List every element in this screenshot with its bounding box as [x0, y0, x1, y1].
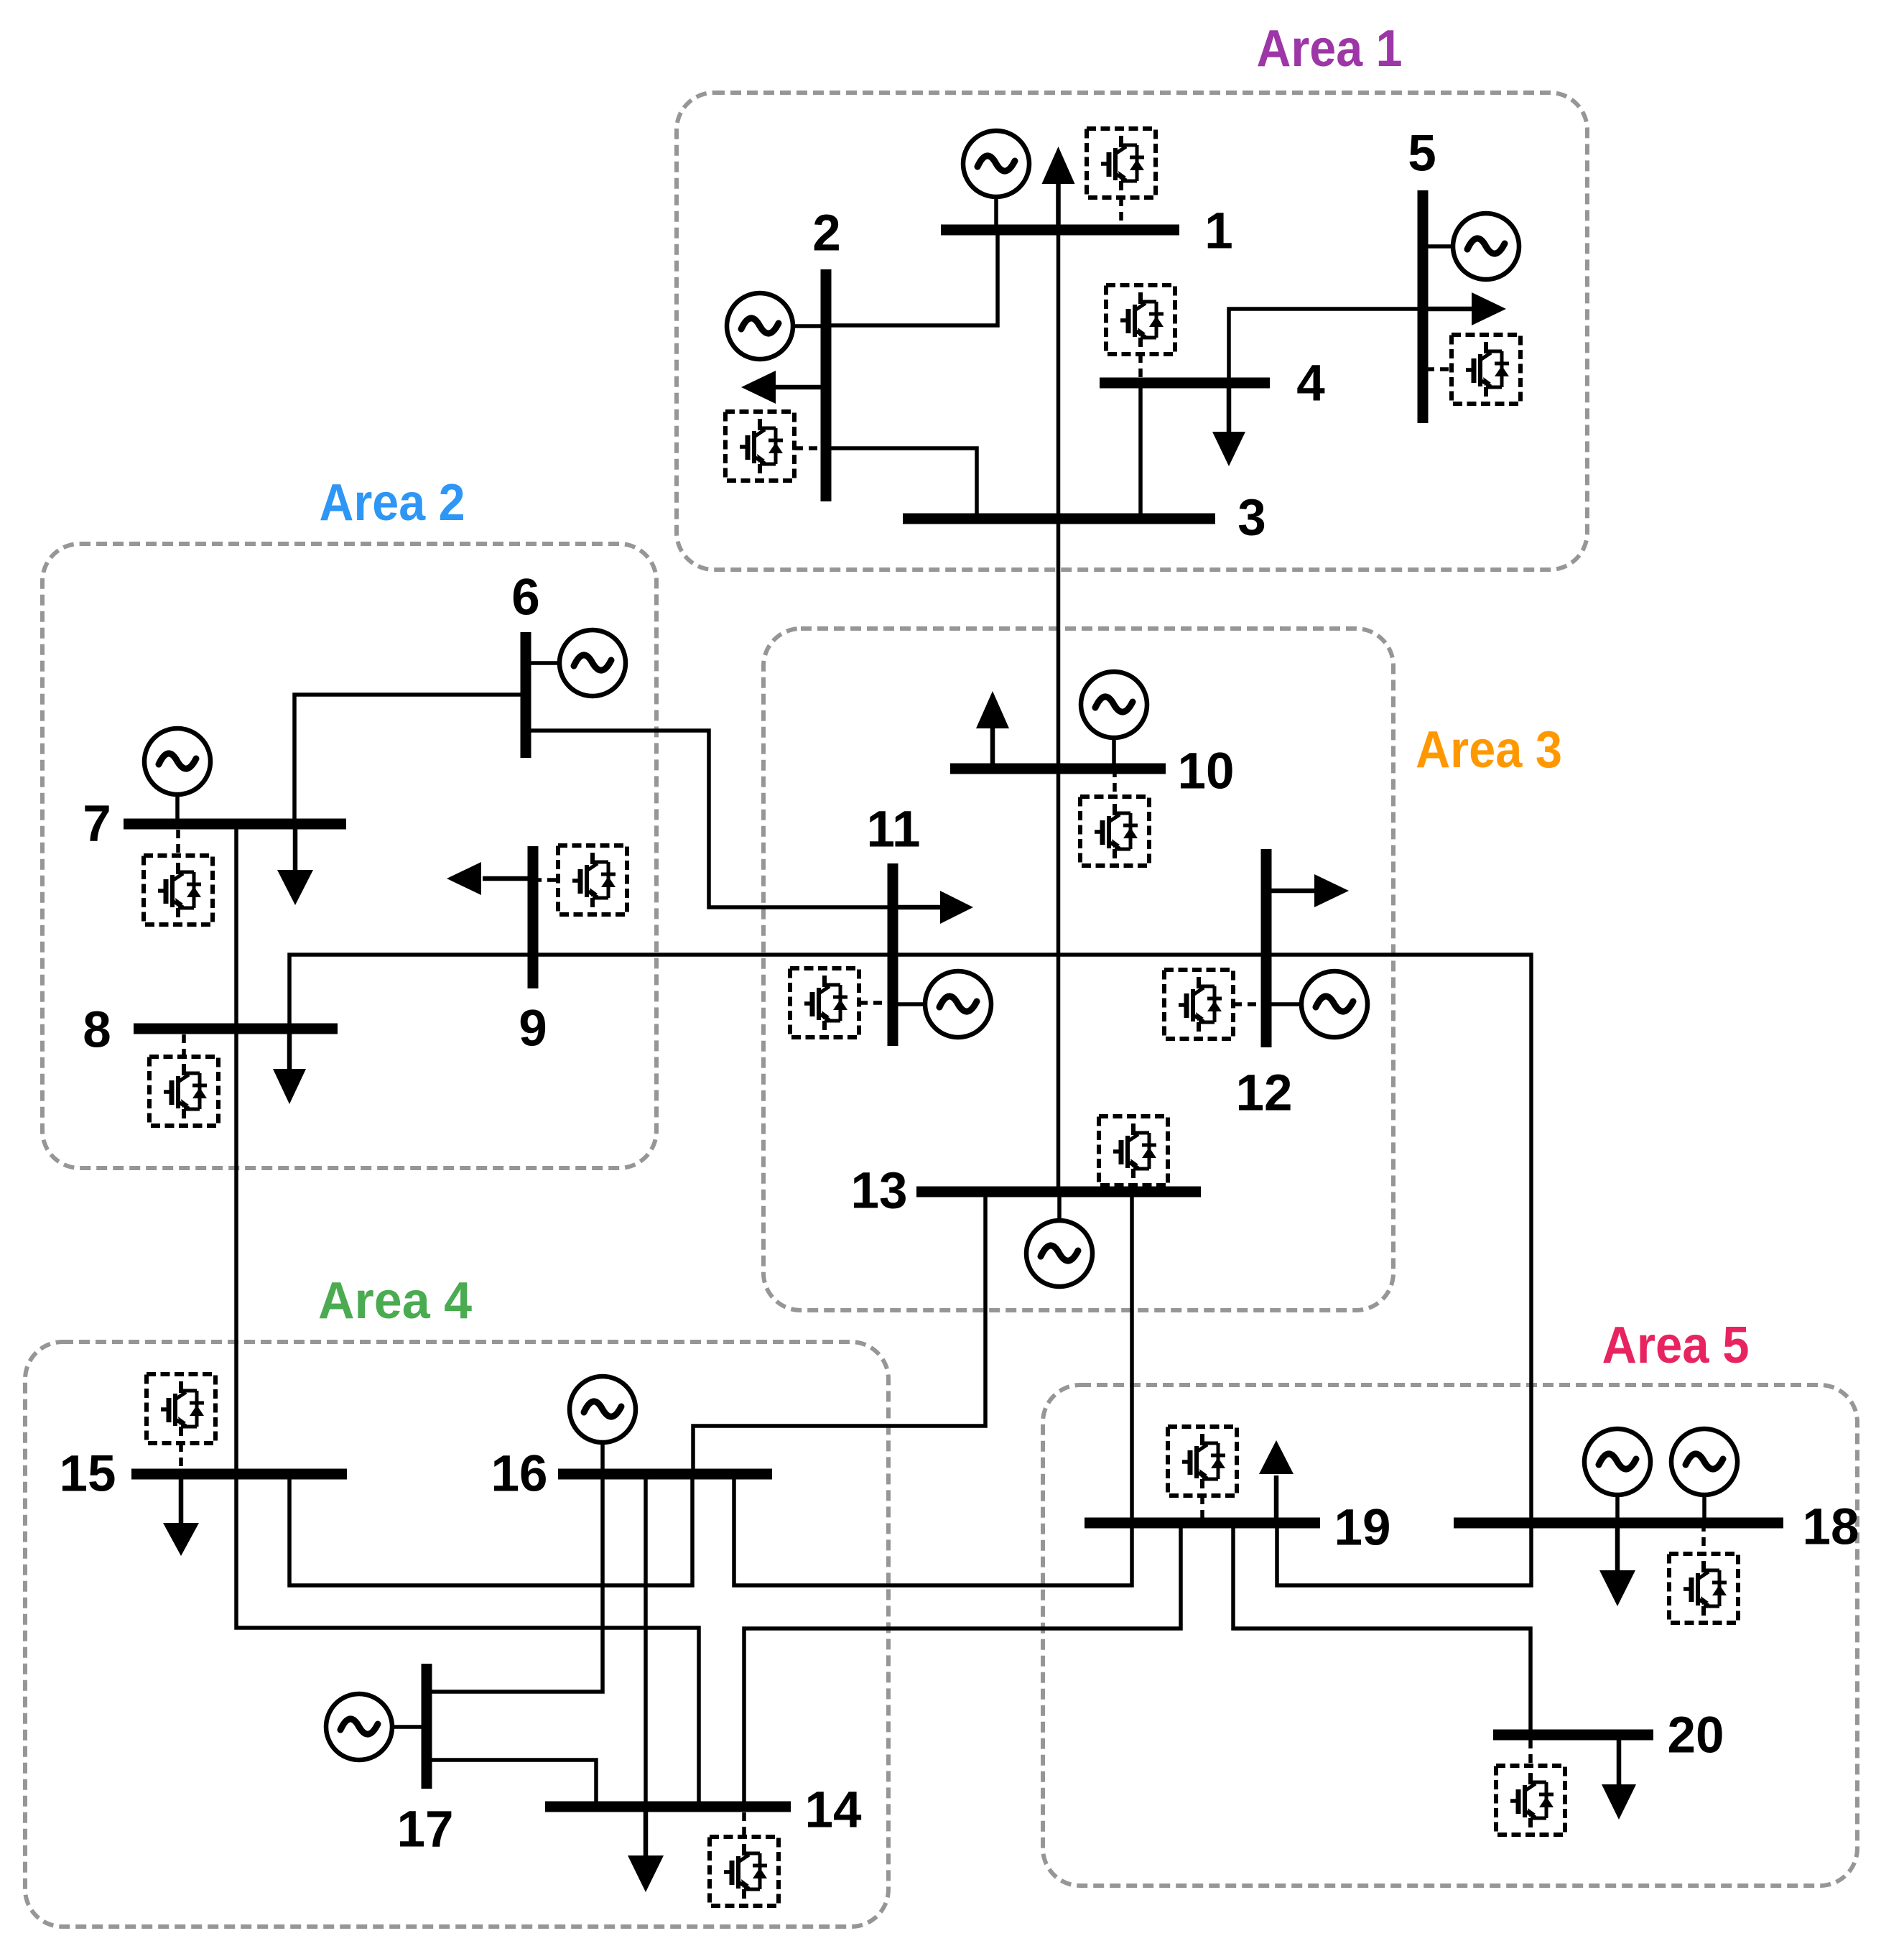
- converter C9 (bus 9): [533, 845, 627, 914]
- wire 6-11: [526, 731, 893, 907]
- svg-text:13: 13: [851, 1163, 908, 1220]
- generator G13 (bus 13): [1026, 1192, 1092, 1287]
- load L9 (bus 9, left): [447, 862, 533, 895]
- generator G11 (bus 11): [893, 971, 991, 1037]
- svg-text:16: 16: [491, 1446, 548, 1503]
- svg-text:2: 2: [812, 205, 841, 262]
- svg-text:Area 3: Area 3: [1416, 721, 1562, 779]
- svg-text:9: 9: [519, 1001, 547, 1057]
- generator G18b (bus 18): [1671, 1429, 1737, 1523]
- load L1 (bus 1, up): [1042, 147, 1075, 230]
- generator G18a (bus 18): [1584, 1429, 1650, 1523]
- bus 11: [888, 863, 898, 1046]
- wire 8-9-12-18-19 long link: [289, 955, 1531, 1585]
- generator G7 (bus 7): [144, 728, 210, 824]
- svg-text:15: 15: [60, 1446, 116, 1503]
- load L2 (bus 2, left): [741, 371, 826, 404]
- svg-text:1: 1: [1204, 203, 1233, 260]
- generator G16 (bus 16): [570, 1376, 636, 1474]
- area 4 box: [25, 1342, 888, 1927]
- svg-text:14: 14: [805, 1782, 862, 1839]
- area 2 box: [42, 544, 656, 1168]
- bus 14: [545, 1802, 791, 1812]
- wire 19-20: [1233, 1523, 1531, 1735]
- wire 6-7: [294, 695, 526, 824]
- generator G10 (bus 10): [1081, 672, 1147, 769]
- bus 2: [821, 269, 832, 501]
- area 5 box: [1043, 1385, 1857, 1886]
- wire 13-16: [693, 1192, 985, 1474]
- bus 8: [134, 1024, 338, 1034]
- svg-text:Area 4: Area 4: [318, 1272, 472, 1330]
- generator G1 (bus 1): [963, 131, 1029, 230]
- bus 15: [131, 1469, 347, 1480]
- generator G5 (bus 5): [1423, 213, 1519, 279]
- svg-text:10: 10: [1178, 743, 1235, 800]
- converter C12 (bus 12): [1164, 970, 1262, 1039]
- converter C18 (bus 18): [1669, 1523, 1738, 1623]
- bus 3: [903, 514, 1215, 524]
- svg-text:5: 5: [1408, 126, 1436, 182]
- area 3 box: [763, 629, 1393, 1310]
- wire 13-19-16: [734, 1192, 1132, 1585]
- bus 9: [528, 846, 539, 988]
- svg-text:11: 11: [866, 802, 920, 858]
- wire 4-3: [1138, 383, 1143, 519]
- bus 10: [950, 764, 1166, 774]
- bus 12: [1261, 849, 1272, 1047]
- bus 18: [1454, 1518, 1783, 1529]
- wire 2-1: [826, 230, 998, 325]
- generator G17 (bus 17): [326, 1694, 427, 1760]
- wire 7-8: [234, 824, 238, 1029]
- converter C7 (bus 7): [144, 830, 213, 925]
- load L12 (bus 12, right): [1266, 874, 1349, 907]
- wire 8-14: [236, 1029, 699, 1807]
- svg-text:17: 17: [397, 1802, 454, 1858]
- wire 14-19: [744, 1523, 1181, 1807]
- load L18 (bus 18, down): [1599, 1523, 1635, 1606]
- converter C10 (bus 10): [1080, 769, 1149, 866]
- wire 16-17: [427, 1474, 603, 1692]
- load L15 (bus 15, down): [163, 1474, 199, 1556]
- generator G6 (bus 6): [526, 630, 626, 696]
- bus 13: [916, 1187, 1201, 1197]
- svg-text:7: 7: [83, 796, 111, 853]
- svg-text:18: 18: [1803, 1499, 1859, 1556]
- load L11 (bus 11, right): [893, 891, 973, 924]
- converter C15 (bus 15): [147, 1374, 215, 1474]
- converter C19 (bus 19): [1168, 1427, 1237, 1523]
- generator G12 (bus 12): [1266, 971, 1367, 1037]
- svg-text:Area 1: Area 1: [1257, 20, 1403, 78]
- load L5 (bus 5, right): [1423, 292, 1506, 325]
- bus 19: [1085, 1518, 1320, 1529]
- load L8 (bus 8, down): [273, 1034, 306, 1104]
- load L20 (bus 20, down): [1602, 1735, 1636, 1820]
- svg-text:Area 5: Area 5: [1602, 1317, 1750, 1374]
- converter C2 (bus 2): [725, 412, 826, 481]
- svg-text:4: 4: [1296, 356, 1325, 412]
- wire 17-14: [427, 1760, 596, 1807]
- wire 2-3: [826, 448, 977, 519]
- bus 4: [1100, 378, 1270, 389]
- svg-text:3: 3: [1237, 490, 1266, 547]
- load L7 (bus 7, down): [277, 824, 313, 905]
- generator G2 (bus 2): [727, 293, 826, 359]
- svg-text:19: 19: [1334, 1500, 1391, 1557]
- converter C1 (bus 1): [1087, 129, 1156, 224]
- wire 1-3-10-13 trunk: [1057, 230, 1061, 1192]
- wire 16-14: [644, 1474, 648, 1807]
- wire 4-5: [1229, 309, 1423, 383]
- converter C5 (bus 5): [1426, 335, 1520, 404]
- svg-text:12: 12: [1236, 1065, 1293, 1122]
- load L19 (bus 19, up): [1259, 1440, 1294, 1523]
- bus 7: [124, 819, 346, 830]
- bus 5: [1418, 190, 1429, 423]
- svg-text:8: 8: [83, 1002, 111, 1059]
- load L4 (bus 4, down): [1212, 383, 1245, 466]
- wire 15-16: [289, 1474, 692, 1585]
- area 1 box: [677, 93, 1587, 570]
- load L14 (bus 14, down): [628, 1807, 664, 1892]
- svg-text:Area 2: Area 2: [320, 474, 465, 532]
- bus 20: [1493, 1730, 1653, 1741]
- converter C8 (bus 8): [149, 1034, 218, 1126]
- svg-text:6: 6: [511, 570, 540, 626]
- converter C4 (bus 4): [1106, 285, 1175, 379]
- svg-text:20: 20: [1668, 1708, 1724, 1764]
- converter C11 (bus 11): [790, 968, 888, 1037]
- converter C14 (bus 14): [710, 1812, 779, 1906]
- bus 17: [422, 1664, 432, 1789]
- load L10 (bus 10, up): [976, 691, 1009, 769]
- bus 1: [941, 225, 1179, 236]
- bus 16: [558, 1469, 772, 1480]
- converter C20 (bus 20): [1496, 1740, 1565, 1835]
- bus 6: [521, 632, 531, 758]
- converter C13 (bus 13): [1099, 1116, 1168, 1185]
